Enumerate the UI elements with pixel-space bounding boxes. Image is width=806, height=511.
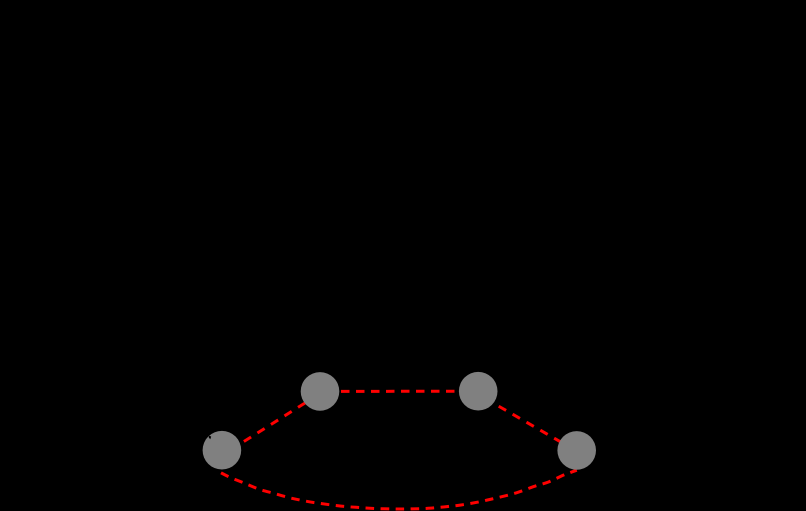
wire edge B-D (red dashed): [478, 394, 577, 451]
node C: [203, 431, 242, 470]
node D: [557, 431, 596, 470]
node A: [301, 372, 340, 411]
black tick on node C (arrow tip overlapping node): [209, 436, 212, 440]
wire edge A-B (red dashed): [320, 390, 478, 393]
wire edge C-D low arc (red dashed): [221, 470, 577, 509]
wire edge C-A (red dashed): [222, 393, 320, 455]
node B: [459, 372, 498, 411]
